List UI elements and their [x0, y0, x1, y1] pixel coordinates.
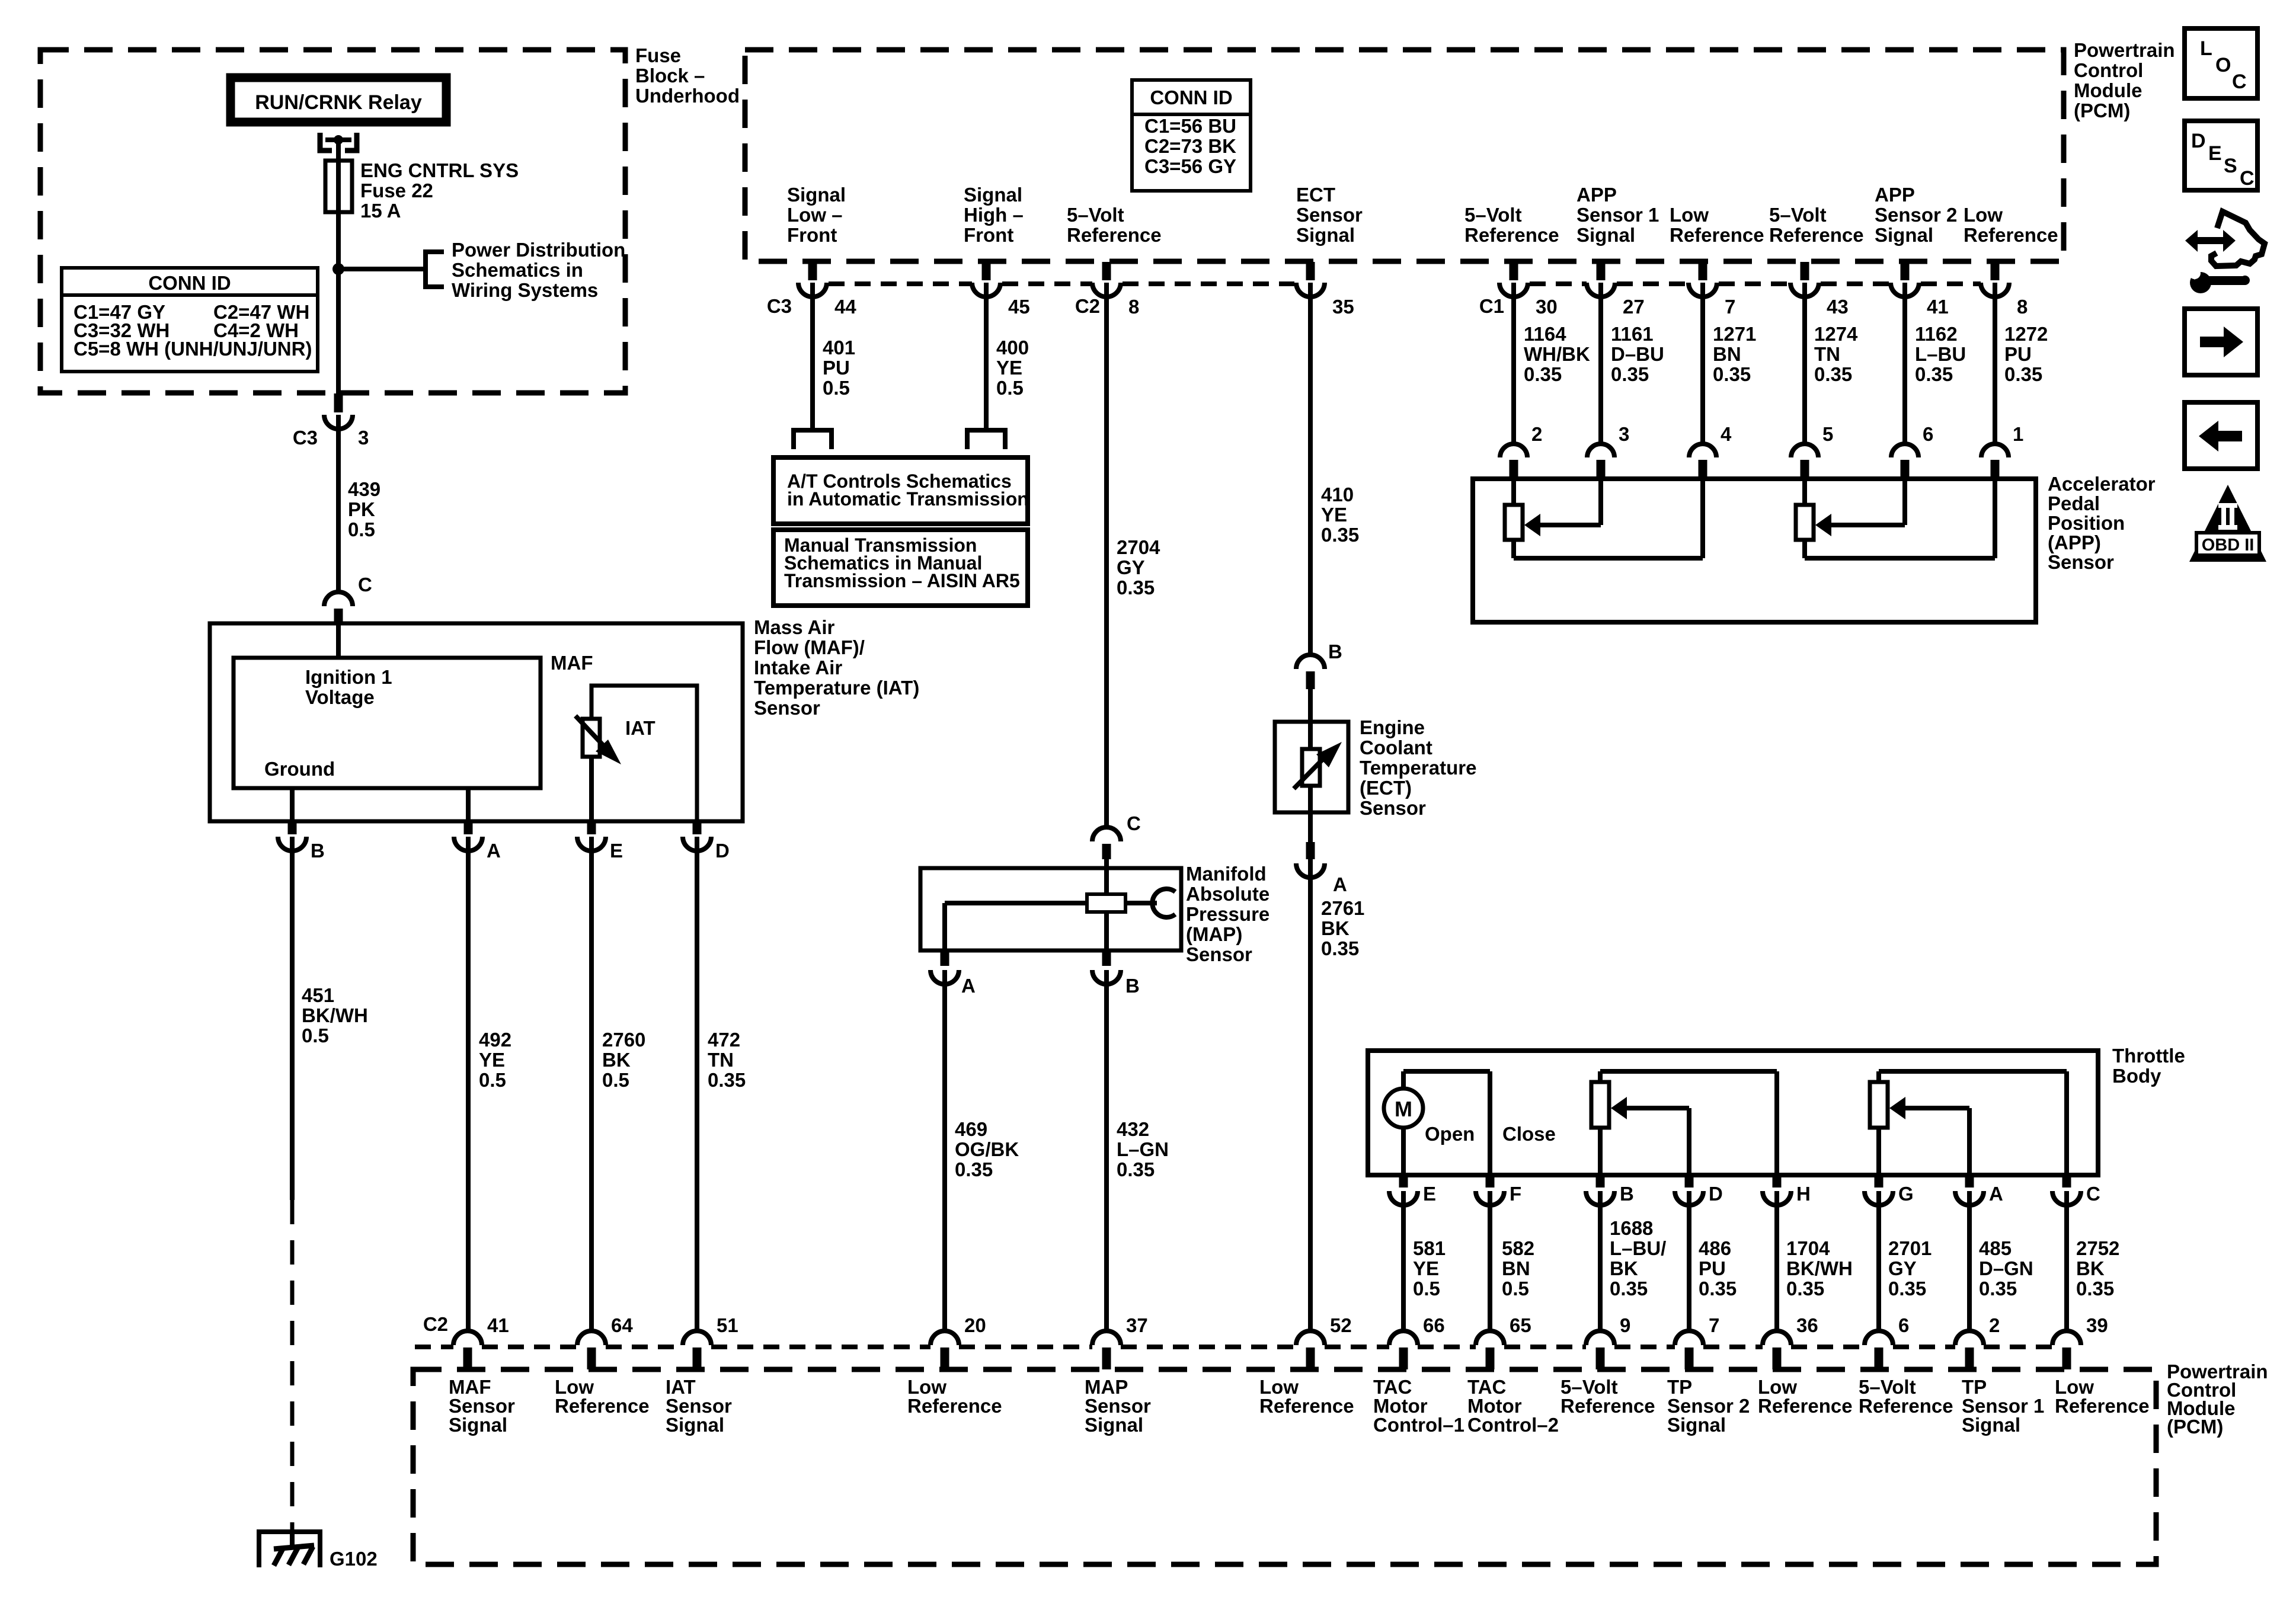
svg-text:5–Volt: 5–Volt: [1464, 204, 1522, 226]
svg-text:BK: BK: [1610, 1257, 1638, 1279]
ECT thermistor arrow: [1294, 750, 1332, 789]
relay terminal bracket: [320, 133, 332, 151]
PCM bottom pin 2 at x=3323: [1955, 1331, 1984, 1345]
fuse block - underhood dashed enclosure: [40, 50, 625, 393]
svg-text:B: B: [1620, 1183, 1634, 1205]
svg-text:0.35: 0.35: [1611, 363, 1649, 385]
svg-text:0.5: 0.5: [996, 377, 1024, 399]
svg-text:YE: YE: [996, 357, 1022, 379]
svg-text:0.5: 0.5: [348, 518, 375, 540]
connector pin B at MAF: [288, 822, 297, 834]
svg-text:1274: 1274: [1814, 323, 1858, 345]
PCM bottom pin 39 at x=3487: [2052, 1331, 2081, 1345]
svg-text:Temperature: Temperature: [1360, 757, 1476, 779]
svg-text:492: 492: [479, 1029, 511, 1051]
wire: C connector into ignition module: [336, 624, 341, 658]
svg-text:0.35: 0.35: [2076, 1278, 2114, 1299]
wire: junction down to fuse block connector C3: [336, 269, 341, 393]
table: CONN ID (PCM): [1132, 80, 1251, 191]
svg-text:0.35: 0.35: [2004, 363, 2042, 385]
svg-text:Low: Low: [1670, 204, 1709, 226]
wire 2760 BK 0.5: [589, 837, 594, 1331]
svg-text:D–GN: D–GN: [1979, 1257, 2033, 1279]
svg-text:400: 400: [996, 337, 1029, 359]
svg-text:Reference: Reference: [1769, 224, 1864, 246]
connector C3/C2 in-line dotted harness line: [829, 281, 972, 286]
svg-text:B: B: [1125, 975, 1140, 997]
svg-text:PU: PU: [823, 357, 850, 379]
svg-text:39: 39: [2086, 1314, 2108, 1336]
svg-text:Signal: Signal: [1667, 1414, 1726, 1436]
svg-text:Voltage: Voltage: [305, 686, 375, 708]
terminal bracket for wire 400: [967, 430, 1005, 449]
svg-text:410: 410: [1321, 484, 1354, 505]
svg-text:Reference: Reference: [1758, 1395, 1853, 1417]
svg-text:66: 66: [1423, 1314, 1445, 1336]
svg-text:6: 6: [1898, 1314, 1909, 1336]
svg-text:TN: TN: [708, 1049, 734, 1071]
svg-text:52: 52: [1330, 1314, 1352, 1336]
wire 1161 D-BU 0.35: [1598, 283, 1603, 444]
svg-text:C1=56 BU: C1=56 BU: [1144, 115, 1236, 137]
svg-text:G: G: [1898, 1183, 1914, 1205]
svg-text:0.5: 0.5: [823, 377, 850, 399]
svg-text:Mass Air: Mass Air: [754, 616, 834, 638]
svg-text:0.35: 0.35: [1915, 363, 1953, 385]
icon: OBD II triangle: [2189, 485, 2266, 562]
TAC motor M: [1384, 1089, 1423, 1128]
PCM top pin 27 at x=2701: [1597, 262, 1606, 280]
svg-text:BN: BN: [1713, 343, 1741, 365]
svg-text:0.35: 0.35: [1699, 1278, 1737, 1299]
table: CONN ID (fuse block): [62, 268, 318, 372]
ground G102: [259, 1532, 320, 1567]
svg-text:1272: 1272: [2004, 323, 2048, 345]
connector pin B at throttle body: [1596, 1176, 1605, 1188]
wire 581 YE 0.5: [1401, 1191, 1406, 1331]
svg-text:GY: GY: [1888, 1257, 1917, 1279]
svg-text:C1: C1: [1479, 295, 1504, 317]
svg-text:A: A: [961, 975, 976, 997]
wire 485 D-GN 0.35: [1967, 1191, 1972, 1331]
svg-text:C3=56 GY: C3=56 GY: [1144, 155, 1236, 177]
svg-text:1164: 1164: [1524, 323, 1566, 345]
svg-text:0.35: 0.35: [1610, 1278, 1648, 1299]
svg-text:C5=8 WH (UNH/UNJ/UNR): C5=8 WH (UNH/UNJ/UNR): [73, 338, 312, 360]
svg-text:BK: BK: [602, 1049, 631, 1071]
svg-text:L–BU: L–BU: [1915, 343, 1966, 365]
svg-text:Body: Body: [2112, 1065, 2161, 1087]
svg-text:APP: APP: [1576, 184, 1617, 206]
node: junction on ignition feed: [332, 263, 344, 275]
connector pin 1 at APP sensor: [1981, 444, 2009, 457]
svg-text:D: D: [715, 840, 730, 862]
svg-text:Control: Control: [2074, 59, 2143, 81]
svg-text:C2: C2: [423, 1313, 448, 1335]
svg-text:Sensor: Sensor: [1296, 204, 1363, 226]
svg-text:BK: BK: [1321, 917, 1350, 939]
svg-text:Ground: Ground: [264, 758, 335, 780]
svg-text:41: 41: [487, 1314, 509, 1336]
relay K: RUN/CRNK Relay box: [231, 78, 446, 122]
svg-text:Front: Front: [964, 224, 1013, 246]
svg-text:G102: G102: [330, 1548, 378, 1570]
powertrain control module (PCM) top dashed enclosure: [745, 50, 2064, 261]
svg-text:Close: Close: [1502, 1123, 1556, 1145]
PCM top pin 41 at x=3214: [1901, 262, 1910, 280]
svg-text:Control–1: Control–1: [1373, 1414, 1464, 1436]
svg-text:C: C: [2232, 71, 2247, 93]
svg-text:O: O: [2215, 54, 2231, 76]
svg-text:Reference: Reference: [1464, 224, 1559, 246]
bottom harness connector dotted line: [415, 1345, 453, 1349]
PCM top pin 43 at x=3045: [1801, 262, 1809, 280]
wire 451 dashed continuation to ground: [290, 1200, 295, 1529]
svg-text:C: C: [2086, 1183, 2100, 1205]
wire 472 TN 0.35: [695, 837, 699, 1331]
svg-text:(ECT): (ECT): [1360, 777, 1412, 799]
svg-text:Reference: Reference: [2055, 1395, 2150, 1417]
svg-text:Signal: Signal: [787, 184, 846, 206]
icon: left arrow box: [2185, 402, 2257, 469]
connector B at ECT sensor: [1296, 655, 1325, 669]
svg-text:2701: 2701: [1888, 1237, 1932, 1259]
svg-text:44: 44: [834, 296, 856, 318]
wire 1274 TN 0.35: [1802, 283, 1807, 444]
svg-text:1688: 1688: [1610, 1217, 1653, 1239]
svg-text:PK: PK: [348, 498, 375, 520]
svg-text:YE: YE: [479, 1049, 505, 1071]
svg-text:L–GN: L–GN: [1117, 1138, 1169, 1160]
svg-text:C2: C2: [1075, 295, 1100, 317]
svg-text:0.5: 0.5: [479, 1069, 506, 1091]
svg-text:D: D: [2191, 130, 2206, 152]
svg-text:0.35: 0.35: [1713, 363, 1751, 385]
PCM bottom pin 51 at x=1176: [683, 1331, 711, 1345]
svg-text:L: L: [2200, 37, 2212, 60]
connector pin A at throttle body: [1965, 1176, 1974, 1188]
icon: wrench: [2190, 272, 2211, 293]
svg-text:(PCM): (PCM): [2074, 100, 2130, 121]
svg-text:PU: PU: [1699, 1257, 1726, 1279]
engine coolant temperature (ECT) sensor box: [1275, 722, 1348, 812]
wire 2752 BK 0.35: [2064, 1191, 2069, 1331]
svg-text:APP: APP: [1875, 184, 1915, 206]
svg-text:BK/WH: BK/WH: [302, 1004, 368, 1026]
svg-text:3: 3: [358, 427, 369, 449]
svg-text:51: 51: [717, 1314, 738, 1336]
PCM top pin 8 at x=1867: [1102, 262, 1111, 280]
icon: DESC box: [2185, 121, 2257, 190]
svg-text:ENG CNTRL SYS: ENG CNTRL SYS: [360, 159, 519, 181]
svg-text:Control–2: Control–2: [1467, 1414, 1559, 1436]
svg-text:Signal: Signal: [449, 1414, 507, 1436]
PCM top pin 45 at x=1664: [982, 262, 991, 280]
connector pin A at MAP: [941, 952, 949, 966]
wire 1688 L-BU/BK 0.35: [1598, 1191, 1603, 1331]
connector pin H at throttle body: [1773, 1176, 1782, 1188]
svg-text:0.35: 0.35: [1814, 363, 1852, 385]
wire 2701 GY 0.35: [1876, 1191, 1881, 1331]
svg-text:Reference: Reference: [555, 1395, 650, 1417]
wire 2704 GY 0.35: [1104, 283, 1109, 827]
APP pot 1 wiper: [1598, 479, 1603, 525]
fuse F22: ENG CNTRL SYS 15A: [336, 163, 341, 212]
svg-text:Low: Low: [1964, 204, 2003, 226]
svg-text:451: 451: [302, 984, 334, 1006]
icon: LOC box: [2185, 28, 2257, 98]
svg-text:2704: 2704: [1117, 536, 1160, 558]
svg-text:WH/BK: WH/BK: [1524, 343, 1590, 365]
Ignition 1 Voltage / Ground inner box: [234, 658, 541, 788]
wire: ground leg inside MAF box: [290, 788, 295, 821]
connector pin F at throttle body: [1486, 1176, 1495, 1188]
svg-text:Open: Open: [1425, 1123, 1475, 1145]
throttle body box: [1368, 1051, 2098, 1175]
svg-text:RUN/CRNK Relay: RUN/CRNK Relay: [255, 91, 422, 114]
manifold absolute pressure (MAP) sensor box: [920, 868, 1181, 950]
svg-text:Fuse: Fuse: [635, 44, 681, 66]
wire: junction to power distribution pointer: [338, 267, 426, 271]
connector pin 2 at APP sensor: [1500, 444, 1527, 457]
svg-text:9: 9: [1620, 1314, 1630, 1336]
svg-text:0.35: 0.35: [1979, 1278, 2017, 1299]
svg-text:A: A: [487, 840, 501, 862]
APP pot 2 low reference path: [1993, 479, 1997, 558]
wire 1272 PU 0.35: [1993, 283, 1997, 444]
svg-text:B: B: [1328, 641, 1342, 662]
PCM bottom pin 9 at x=2700: [1586, 1331, 1614, 1345]
svg-text:Signal: Signal: [1962, 1414, 2020, 1436]
svg-text:0.35: 0.35: [1524, 363, 1562, 385]
PCM top pin 44 at x=1371: [808, 262, 817, 280]
wire 486 PU 0.35: [1687, 1191, 1691, 1331]
svg-text:Intake Air: Intake Air: [754, 657, 842, 678]
svg-text:BK/WH: BK/WH: [1786, 1257, 1853, 1279]
svg-text:Coolant: Coolant: [1360, 737, 1432, 758]
PCM bottom pin 37 at x=1867: [1092, 1331, 1121, 1345]
svg-text:Throttle: Throttle: [2112, 1045, 2185, 1067]
svg-text:E: E: [1423, 1183, 1436, 1205]
svg-text:Signal: Signal: [1296, 224, 1355, 246]
svg-text:0.35: 0.35: [708, 1069, 746, 1091]
svg-text:439: 439: [348, 478, 380, 500]
PCM bottom pin 41 at x=789: [453, 1331, 482, 1345]
svg-text:2: 2: [1989, 1314, 2000, 1336]
svg-text:Signal: Signal: [1085, 1414, 1143, 1436]
svg-text:43: 43: [1827, 296, 1849, 318]
svg-text:469: 469: [955, 1118, 987, 1140]
svg-text:7: 7: [1709, 1314, 1719, 1336]
svg-text:Reference: Reference: [1259, 1395, 1354, 1417]
svg-text:8: 8: [2017, 296, 2028, 318]
svg-text:65: 65: [1510, 1314, 1531, 1336]
svg-text:D: D: [1709, 1183, 1723, 1205]
svg-text:E: E: [2208, 142, 2222, 165]
svg-text:1271: 1271: [1713, 323, 1756, 345]
svg-text:OBD II: OBD II: [2202, 536, 2255, 555]
svg-text:Accelerator: Accelerator: [2048, 473, 2156, 495]
svg-text:MAF: MAF: [551, 652, 593, 674]
icon: harness repair symbol: [2185, 230, 2236, 252]
PCM bottom pin 52 at x=2211: [1296, 1331, 1325, 1345]
svg-text:Signal: Signal: [964, 184, 1022, 206]
svg-text:0.35: 0.35: [1786, 1278, 1824, 1299]
svg-text:Signal: Signal: [666, 1414, 724, 1436]
svg-text:Low –: Low –: [787, 204, 843, 226]
svg-text:1704: 1704: [1786, 1237, 1830, 1259]
connector pin B at MAP: [1102, 952, 1111, 966]
svg-text:Ignition 1: Ignition 1: [305, 666, 392, 688]
connector C1 in-line dotted harness line: [1530, 281, 1587, 286]
APP pot 1 low reference path: [1700, 479, 1705, 558]
svg-text:0.5: 0.5: [302, 1025, 329, 1046]
svg-text:Sensor: Sensor: [2048, 551, 2114, 573]
connector pin D at MAF: [693, 822, 702, 834]
PCM bottom pin 65 at x=2514: [1476, 1331, 1504, 1345]
svg-text:Absolute: Absolute: [1186, 883, 1269, 905]
PCM bottom pin 66 at x=2368: [1389, 1331, 1418, 1345]
PCM top pin 30 at x=2554: [1510, 262, 1518, 280]
svg-text:0.35: 0.35: [1321, 524, 1359, 546]
svg-text:in Automatic Transmission: in Automatic Transmission: [787, 488, 1029, 510]
svg-text:Signal: Signal: [1875, 224, 1933, 246]
svg-text:YE: YE: [1321, 504, 1347, 526]
wire 492 YE 0.5: [466, 837, 471, 1331]
wire: sensor signal leg inside MAF box: [466, 788, 471, 821]
svg-text:BN: BN: [1502, 1257, 1530, 1279]
svg-text:E: E: [610, 840, 623, 862]
svg-text:Front: Front: [787, 224, 837, 246]
wire: fuse to junction node: [336, 212, 341, 269]
svg-text:485: 485: [1979, 1237, 2012, 1259]
svg-text:ECT: ECT: [1296, 184, 1335, 206]
svg-text:432: 432: [1117, 1118, 1149, 1140]
svg-text:High –: High –: [964, 204, 1024, 226]
svg-text:Reference: Reference: [1067, 224, 1162, 246]
powertrain control module (PCM) bottom dashed enclosure: [413, 1369, 2156, 1564]
svg-text:Sensor 2: Sensor 2: [1875, 204, 1957, 226]
svg-text:Fuse 22: Fuse 22: [360, 180, 433, 201]
IAT thermistor RT1: [583, 719, 600, 757]
IAT thermistor arrow: [575, 716, 613, 756]
svg-text:Signal: Signal: [1576, 224, 1635, 246]
svg-text:Wiring Systems: Wiring Systems: [452, 279, 598, 301]
connector A at ECT sensor: [1308, 812, 1313, 863]
TP sensor 1 potentiometer: [1876, 1071, 1881, 1082]
PCM bottom pin 6 at x=3170: [1865, 1331, 1893, 1345]
connector pin E at MAF: [587, 822, 596, 834]
connector C3 pin 3 (fuse block output): [334, 393, 343, 412]
connector pin 3 at APP sensor: [1587, 444, 1614, 457]
connector pin A at MAF: [464, 822, 473, 834]
svg-text:L–BU/: L–BU/: [1610, 1237, 1666, 1259]
wire 1162 L-BU 0.35: [1902, 283, 1907, 444]
wire 410 YE 0.35: [1308, 283, 1313, 655]
connector pin E at throttle body: [1399, 1176, 1408, 1188]
svg-text:YE: YE: [1413, 1257, 1439, 1279]
connector pin G at throttle body: [1875, 1176, 1884, 1188]
svg-text:A: A: [1333, 873, 1347, 895]
TP sensor 1 wiper: [1967, 1108, 1972, 1175]
wire 432 L-GN 0.35: [1104, 970, 1109, 1331]
svg-text:Reference: Reference: [1964, 224, 2058, 246]
svg-text:5–Volt: 5–Volt: [1067, 204, 1124, 226]
svg-text:IAT: IAT: [625, 717, 655, 739]
svg-text:64: 64: [611, 1314, 633, 1336]
svg-text:Schematics in: Schematics in: [452, 259, 583, 281]
TP sensor 2 potentiometer: [1598, 1071, 1603, 1082]
svg-text:Reference: Reference: [1670, 224, 1764, 246]
svg-text:H: H: [1796, 1183, 1811, 1205]
svg-text:Power Distribution: Power Distribution: [452, 239, 625, 261]
svg-text:Module: Module: [2074, 79, 2142, 101]
PCM bottom pin 64 at x=998: [577, 1331, 606, 1345]
IAT thermistor loop wiring: [591, 686, 697, 821]
wire 469 OG/BK 0.35: [942, 970, 947, 1331]
PCM top pin 35 at x=2211: [1306, 262, 1315, 280]
svg-text:20: 20: [964, 1314, 986, 1336]
svg-text:35: 35: [1332, 296, 1354, 318]
svg-text:2: 2: [1531, 423, 1542, 445]
connector pin 6 at APP sensor: [1891, 444, 1918, 457]
reference box: Manual Transmission Schematics: [773, 530, 1028, 606]
svg-text:0.5: 0.5: [1502, 1278, 1529, 1299]
svg-text:D–BU: D–BU: [1611, 343, 1664, 365]
svg-text:C: C: [358, 574, 372, 596]
svg-text:Engine: Engine: [1360, 716, 1425, 738]
svg-text:2752: 2752: [2076, 1237, 2119, 1259]
svg-text:0.35: 0.35: [1321, 937, 1359, 959]
PCM top pin 7 at x=2873: [1699, 262, 1707, 280]
svg-text:Reference: Reference: [1859, 1395, 1953, 1417]
reference box: A/T Controls Schematics: [773, 457, 1028, 524]
svg-text:5: 5: [1822, 423, 1833, 445]
svg-text:C2=73 BK: C2=73 BK: [1144, 135, 1236, 157]
svg-text:472: 472: [708, 1029, 740, 1051]
svg-text:C: C: [2240, 167, 2255, 190]
svg-text:OG/BK: OG/BK: [955, 1138, 1019, 1160]
MAP sensing element: [1087, 894, 1125, 912]
svg-text:27: 27: [1623, 296, 1645, 318]
wire 401 PU 0.5: [810, 283, 815, 428]
svg-text:1161: 1161: [1611, 323, 1654, 345]
svg-text:Temperature (IAT): Temperature (IAT): [754, 677, 919, 699]
svg-text:7: 7: [1725, 296, 1735, 318]
svg-text:Flow (MAF)/: Flow (MAF)/: [754, 636, 865, 658]
svg-text:S: S: [2224, 155, 2237, 177]
svg-text:30: 30: [1536, 296, 1558, 318]
svg-text:Reference: Reference: [1560, 1395, 1655, 1417]
svg-text:Reference: Reference: [907, 1395, 1002, 1417]
svg-text:0.5: 0.5: [1413, 1278, 1440, 1299]
svg-text:Pressure: Pressure: [1186, 903, 1269, 925]
svg-text:Sensor 1: Sensor 1: [1576, 204, 1659, 226]
svg-text:0.35: 0.35: [1117, 577, 1155, 598]
TP sensor 2 wiper: [1687, 1108, 1691, 1175]
svg-text:6: 6: [1923, 423, 1933, 445]
svg-text:37: 37: [1126, 1314, 1148, 1336]
svg-text:2761: 2761: [1321, 897, 1364, 919]
svg-text:B: B: [311, 840, 325, 862]
svg-text:(APP): (APP): [2048, 532, 2101, 553]
svg-text:Sensor: Sensor: [1360, 797, 1426, 819]
svg-text:4: 4: [1721, 423, 1732, 445]
svg-text:Underhood: Underhood: [635, 85, 740, 107]
wire: relay to fuse 22: [336, 140, 341, 163]
wire 1704 BK/WH 0.35: [1774, 1191, 1779, 1331]
svg-text:CONN ID: CONN ID: [1150, 87, 1232, 108]
